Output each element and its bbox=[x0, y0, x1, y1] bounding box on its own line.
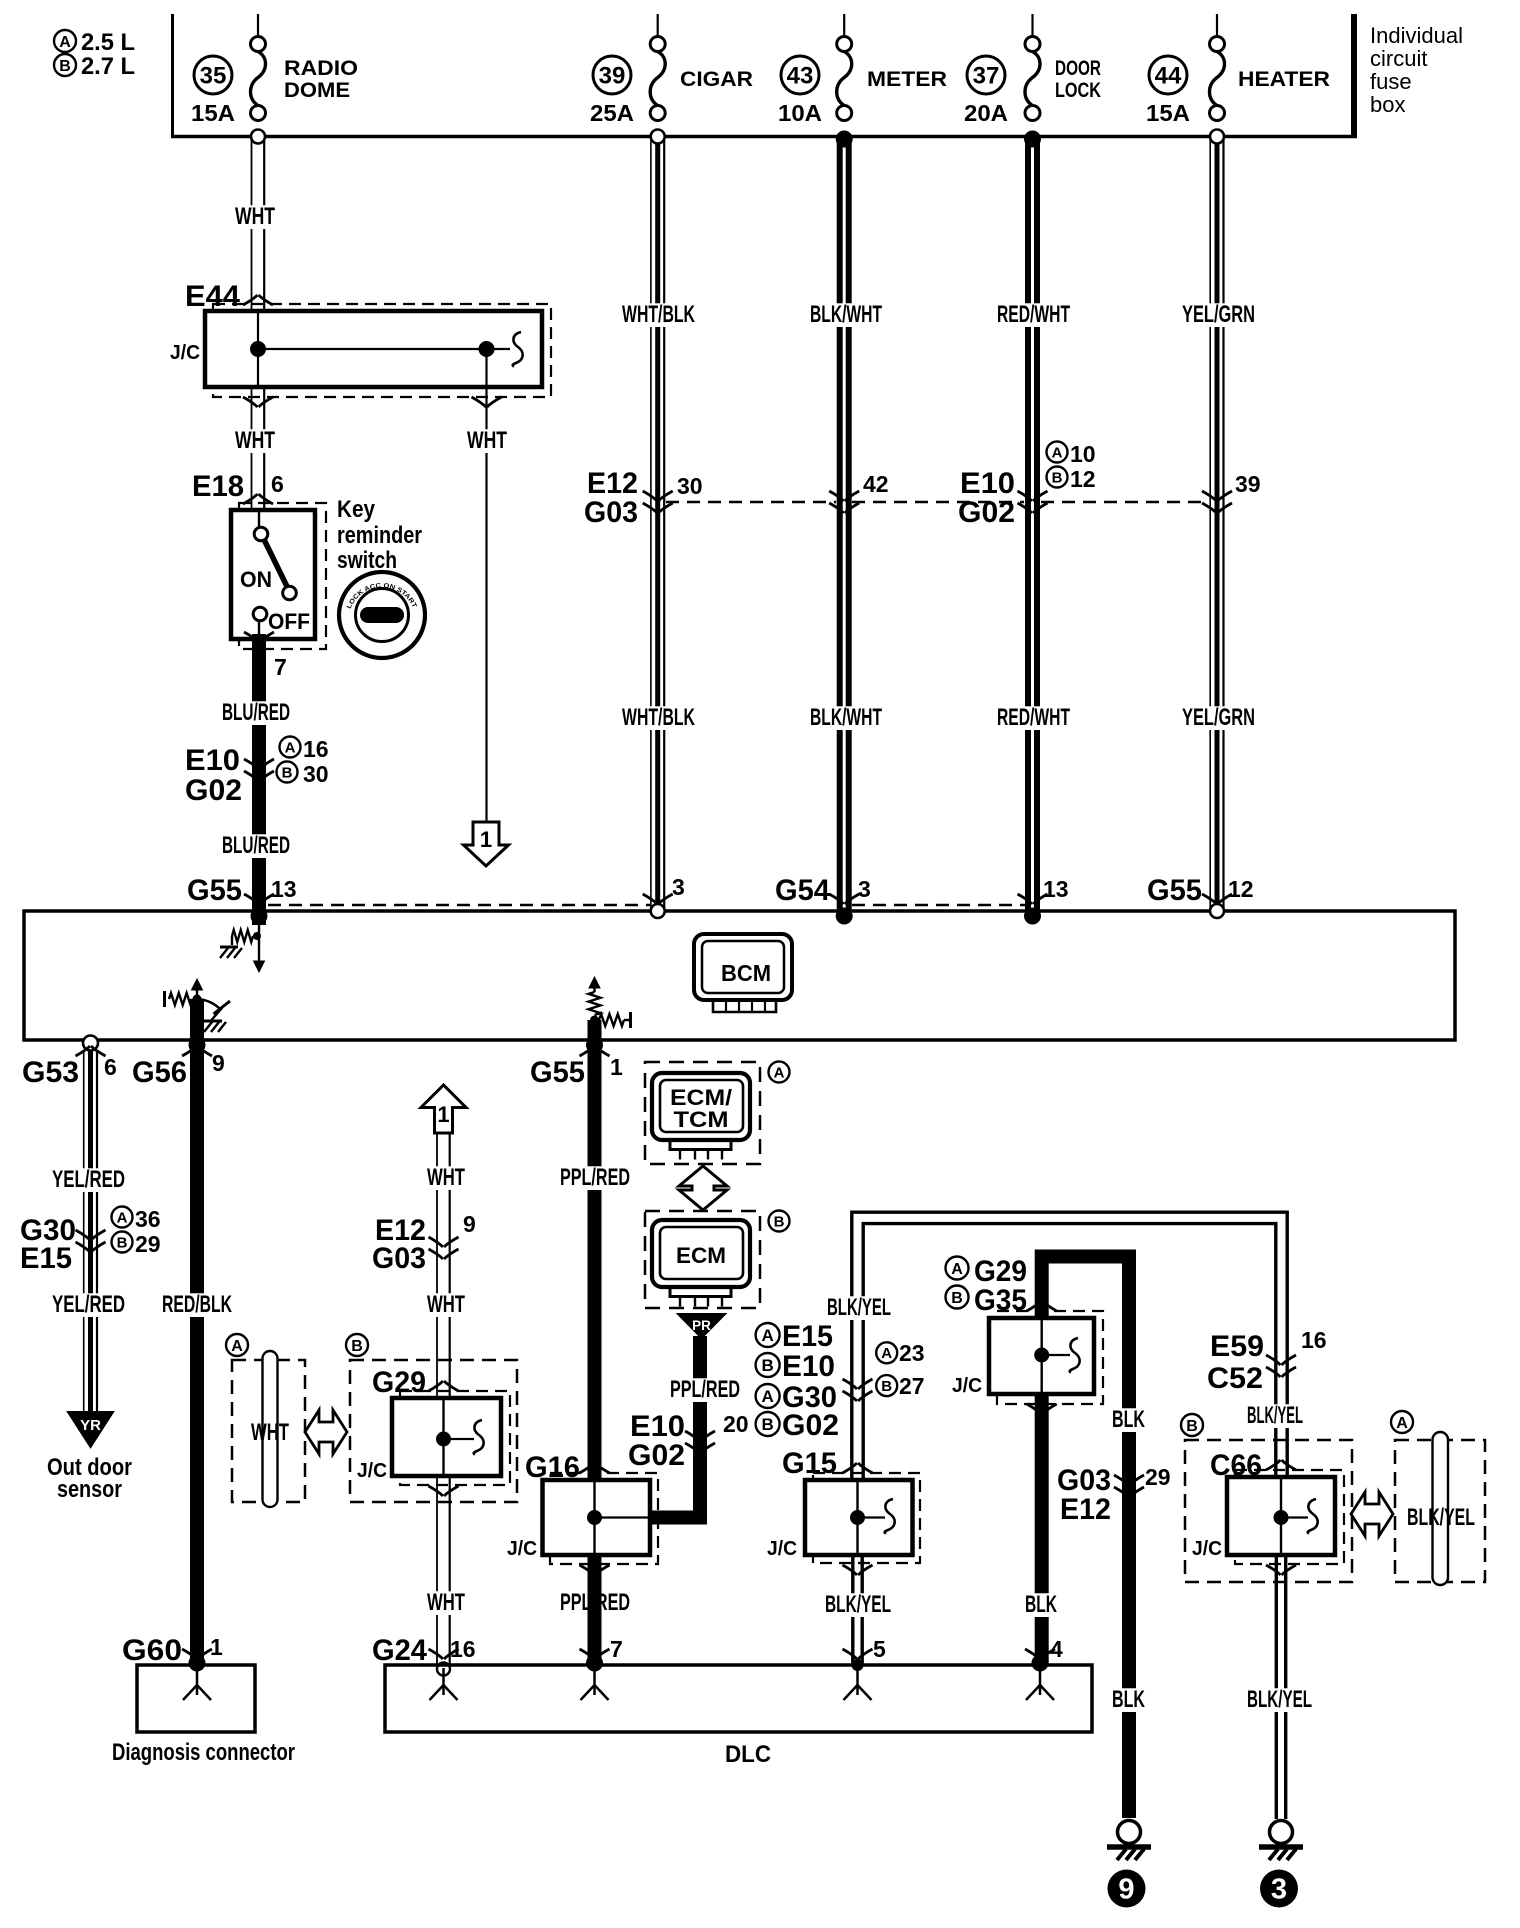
svg-text:B: B bbox=[951, 1290, 963, 1307]
svg-text:16: 16 bbox=[303, 736, 329, 762]
svg-text:15A: 15A bbox=[1146, 100, 1190, 126]
svg-text:39: 39 bbox=[599, 63, 626, 90]
svg-text:WHT/BLK: WHT/BLK bbox=[622, 301, 695, 328]
svg-text:A: A bbox=[285, 739, 296, 756]
svg-text:BCM: BCM bbox=[721, 960, 771, 986]
svg-text:HEATER: HEATER bbox=[1238, 68, 1330, 91]
svg-text:Key: Key bbox=[337, 496, 376, 523]
svg-text:BLK/YEL: BLK/YEL bbox=[1247, 1686, 1312, 1713]
svg-text:G03: G03 bbox=[372, 1242, 426, 1275]
svg-text:16: 16 bbox=[1301, 1327, 1327, 1353]
svg-text:G55: G55 bbox=[1147, 874, 1202, 907]
svg-text:G60: G60 bbox=[122, 1634, 182, 1667]
svg-text:box: box bbox=[1370, 92, 1405, 117]
svg-text:switch: switch bbox=[337, 547, 397, 574]
svg-text:A: A bbox=[881, 1345, 892, 1362]
svg-text:29: 29 bbox=[135, 1231, 161, 1257]
svg-text:9: 9 bbox=[463, 1211, 476, 1237]
svg-text:J/C: J/C bbox=[952, 1375, 982, 1397]
svg-text:36: 36 bbox=[135, 1206, 161, 1232]
svg-text:YEL/GRN: YEL/GRN bbox=[1182, 704, 1255, 731]
svg-text:B: B bbox=[351, 1338, 363, 1355]
svg-text:13: 13 bbox=[271, 876, 297, 902]
svg-text:YR: YR bbox=[80, 1417, 101, 1434]
svg-text:G54: G54 bbox=[775, 874, 830, 907]
svg-text:A: A bbox=[1052, 444, 1063, 461]
svg-text:BLK/YEL: BLK/YEL bbox=[827, 1294, 891, 1321]
svg-text:RED/WHT: RED/WHT bbox=[997, 301, 1070, 328]
svg-text:B: B bbox=[1186, 1418, 1198, 1435]
svg-text:E15: E15 bbox=[20, 1242, 72, 1275]
svg-text:13: 13 bbox=[1043, 876, 1069, 902]
svg-text:30: 30 bbox=[677, 473, 703, 499]
svg-text:fuse: fuse bbox=[1370, 69, 1412, 94]
svg-text:YEL/RED: YEL/RED bbox=[52, 1166, 125, 1193]
svg-text:E59: E59 bbox=[1210, 1330, 1264, 1363]
svg-text:sensor: sensor bbox=[57, 1476, 122, 1503]
svg-text:WHT: WHT bbox=[251, 1419, 289, 1446]
svg-text:J/C: J/C bbox=[357, 1460, 387, 1482]
svg-text:E12: E12 bbox=[1060, 1493, 1111, 1526]
svg-text:A: A bbox=[1396, 1415, 1408, 1432]
svg-text:YEL/GRN: YEL/GRN bbox=[1182, 301, 1255, 328]
svg-text:G55: G55 bbox=[187, 874, 242, 907]
svg-text:J/C: J/C bbox=[767, 1538, 797, 1560]
svg-text:WHT/BLK: WHT/BLK bbox=[622, 704, 695, 731]
svg-text:J/C: J/C bbox=[170, 342, 200, 364]
svg-text:E10: E10 bbox=[782, 1350, 835, 1383]
svg-text:WHT: WHT bbox=[427, 1291, 465, 1318]
svg-text:E15: E15 bbox=[782, 1320, 833, 1353]
svg-text:G03: G03 bbox=[584, 496, 638, 529]
svg-text:G56: G56 bbox=[132, 1056, 187, 1089]
svg-text:12: 12 bbox=[1228, 876, 1254, 902]
svg-text:3: 3 bbox=[1271, 1874, 1287, 1906]
svg-text:G55: G55 bbox=[530, 1056, 585, 1089]
svg-text:1: 1 bbox=[437, 1102, 449, 1127]
svg-text:1: 1 bbox=[480, 827, 492, 852]
svg-text:1: 1 bbox=[610, 1054, 623, 1080]
svg-text:3: 3 bbox=[672, 874, 685, 900]
svg-text:ON: ON bbox=[240, 567, 272, 592]
svg-text:27: 27 bbox=[899, 1373, 925, 1399]
svg-text:29: 29 bbox=[1145, 1464, 1171, 1490]
svg-text:METER: METER bbox=[867, 68, 947, 91]
svg-text:reminder: reminder bbox=[337, 522, 422, 549]
svg-text:BLU/RED: BLU/RED bbox=[222, 699, 290, 726]
svg-text:A: A bbox=[951, 1261, 963, 1278]
svg-text:43: 43 bbox=[787, 63, 814, 90]
svg-text:B: B bbox=[59, 58, 71, 75]
svg-text:BLK/YEL: BLK/YEL bbox=[1247, 1402, 1303, 1429]
svg-text:35: 35 bbox=[200, 63, 227, 90]
svg-text:J/C: J/C bbox=[507, 1538, 537, 1560]
svg-text:BLK/WHT: BLK/WHT bbox=[810, 704, 882, 731]
svg-text:BLK: BLK bbox=[1112, 1686, 1145, 1713]
svg-text:YEL/RED: YEL/RED bbox=[52, 1291, 125, 1318]
svg-text:WHT: WHT bbox=[235, 427, 275, 454]
svg-text:PPL/RED: PPL/RED bbox=[670, 1376, 740, 1403]
svg-text:30: 30 bbox=[303, 761, 329, 787]
svg-text:C52: C52 bbox=[1207, 1362, 1263, 1395]
svg-text:9: 9 bbox=[1118, 1874, 1134, 1906]
svg-text:6: 6 bbox=[104, 1054, 117, 1080]
svg-text:PR: PR bbox=[692, 1318, 711, 1333]
svg-text:G02: G02 bbox=[628, 1439, 685, 1472]
svg-text:2.5 L: 2.5 L bbox=[81, 29, 135, 56]
svg-text:3: 3 bbox=[858, 876, 871, 902]
svg-text:J/C: J/C bbox=[1192, 1538, 1222, 1560]
svg-text:DLC: DLC bbox=[725, 1741, 771, 1768]
svg-text:WHT: WHT bbox=[427, 1589, 465, 1616]
svg-text:E10: E10 bbox=[185, 744, 240, 777]
svg-text:RED/BLK: RED/BLK bbox=[162, 1291, 232, 1318]
svg-text:ECM: ECM bbox=[676, 1243, 726, 1268]
svg-text:OFF: OFF bbox=[268, 609, 310, 634]
svg-text:9: 9 bbox=[212, 1050, 225, 1076]
svg-text:G02: G02 bbox=[958, 496, 1015, 529]
svg-text:B: B bbox=[117, 1234, 128, 1251]
svg-text:BLK: BLK bbox=[1112, 1406, 1145, 1433]
svg-text:20A: 20A bbox=[964, 100, 1008, 126]
svg-text:B: B bbox=[282, 764, 293, 781]
svg-text:TCM: TCM bbox=[674, 1107, 729, 1132]
svg-text:A: A bbox=[761, 1387, 773, 1406]
svg-text:6: 6 bbox=[271, 471, 284, 497]
svg-text:A: A bbox=[761, 1326, 773, 1345]
svg-text:B: B bbox=[1052, 469, 1063, 486]
svg-text:5: 5 bbox=[873, 1636, 886, 1662]
svg-text:16: 16 bbox=[450, 1636, 476, 1662]
svg-text:DOOR: DOOR bbox=[1055, 57, 1101, 80]
svg-text:B: B bbox=[881, 1378, 892, 1395]
svg-text:PPL/RED: PPL/RED bbox=[560, 1164, 630, 1191]
svg-text:A: A bbox=[59, 34, 71, 51]
svg-text:RADIO: RADIO bbox=[284, 57, 358, 80]
svg-text:BLK/YEL: BLK/YEL bbox=[1407, 1504, 1475, 1531]
svg-text:44: 44 bbox=[1155, 63, 1182, 90]
svg-text:A: A bbox=[774, 1064, 785, 1081]
svg-text:WHT: WHT bbox=[427, 1164, 465, 1191]
svg-text:37: 37 bbox=[973, 63, 1000, 90]
svg-text:Individual: Individual bbox=[1370, 23, 1463, 48]
svg-text:7: 7 bbox=[274, 654, 287, 680]
svg-text:DOME: DOME bbox=[284, 79, 350, 102]
svg-text:42: 42 bbox=[863, 471, 889, 497]
svg-text:G53: G53 bbox=[22, 1056, 79, 1089]
svg-text:G15: G15 bbox=[782, 1447, 837, 1480]
svg-text:Diagnosis connector: Diagnosis connector bbox=[112, 1739, 295, 1766]
svg-text:A: A bbox=[231, 1338, 243, 1355]
svg-text:LOCK: LOCK bbox=[1055, 79, 1101, 102]
svg-text:WHT: WHT bbox=[467, 427, 507, 454]
svg-text:circuit: circuit bbox=[1370, 46, 1427, 71]
svg-text:G24: G24 bbox=[372, 1634, 427, 1667]
svg-text:15A: 15A bbox=[191, 100, 235, 126]
svg-text:RED/WHT: RED/WHT bbox=[997, 704, 1070, 731]
svg-text:BLK: BLK bbox=[1025, 1591, 1057, 1618]
svg-text:1: 1 bbox=[210, 1634, 223, 1660]
svg-text:25A: 25A bbox=[590, 100, 634, 126]
svg-text:BLU/RED: BLU/RED bbox=[222, 832, 290, 859]
svg-text:WHT: WHT bbox=[235, 203, 275, 230]
svg-text:G02: G02 bbox=[782, 1409, 839, 1442]
svg-text:10A: 10A bbox=[778, 100, 822, 126]
svg-text:12: 12 bbox=[1070, 466, 1096, 492]
svg-text:BLK/WHT: BLK/WHT bbox=[810, 301, 882, 328]
svg-text:B: B bbox=[761, 1356, 773, 1375]
svg-text:2.7 L: 2.7 L bbox=[81, 53, 135, 80]
svg-text:23: 23 bbox=[899, 1340, 925, 1366]
svg-text:G02: G02 bbox=[185, 774, 242, 807]
svg-text:7: 7 bbox=[610, 1636, 623, 1662]
svg-text:39: 39 bbox=[1235, 471, 1261, 497]
svg-text:20: 20 bbox=[723, 1411, 749, 1437]
svg-text:10: 10 bbox=[1070, 441, 1096, 467]
svg-text:B: B bbox=[774, 1213, 785, 1230]
svg-text:E18: E18 bbox=[192, 470, 244, 503]
svg-text:BLK/YEL: BLK/YEL bbox=[825, 1591, 891, 1618]
svg-text:CIGAR: CIGAR bbox=[680, 68, 753, 91]
svg-text:4: 4 bbox=[1050, 1636, 1063, 1662]
svg-text:A: A bbox=[117, 1209, 128, 1226]
svg-text:B: B bbox=[761, 1415, 773, 1434]
